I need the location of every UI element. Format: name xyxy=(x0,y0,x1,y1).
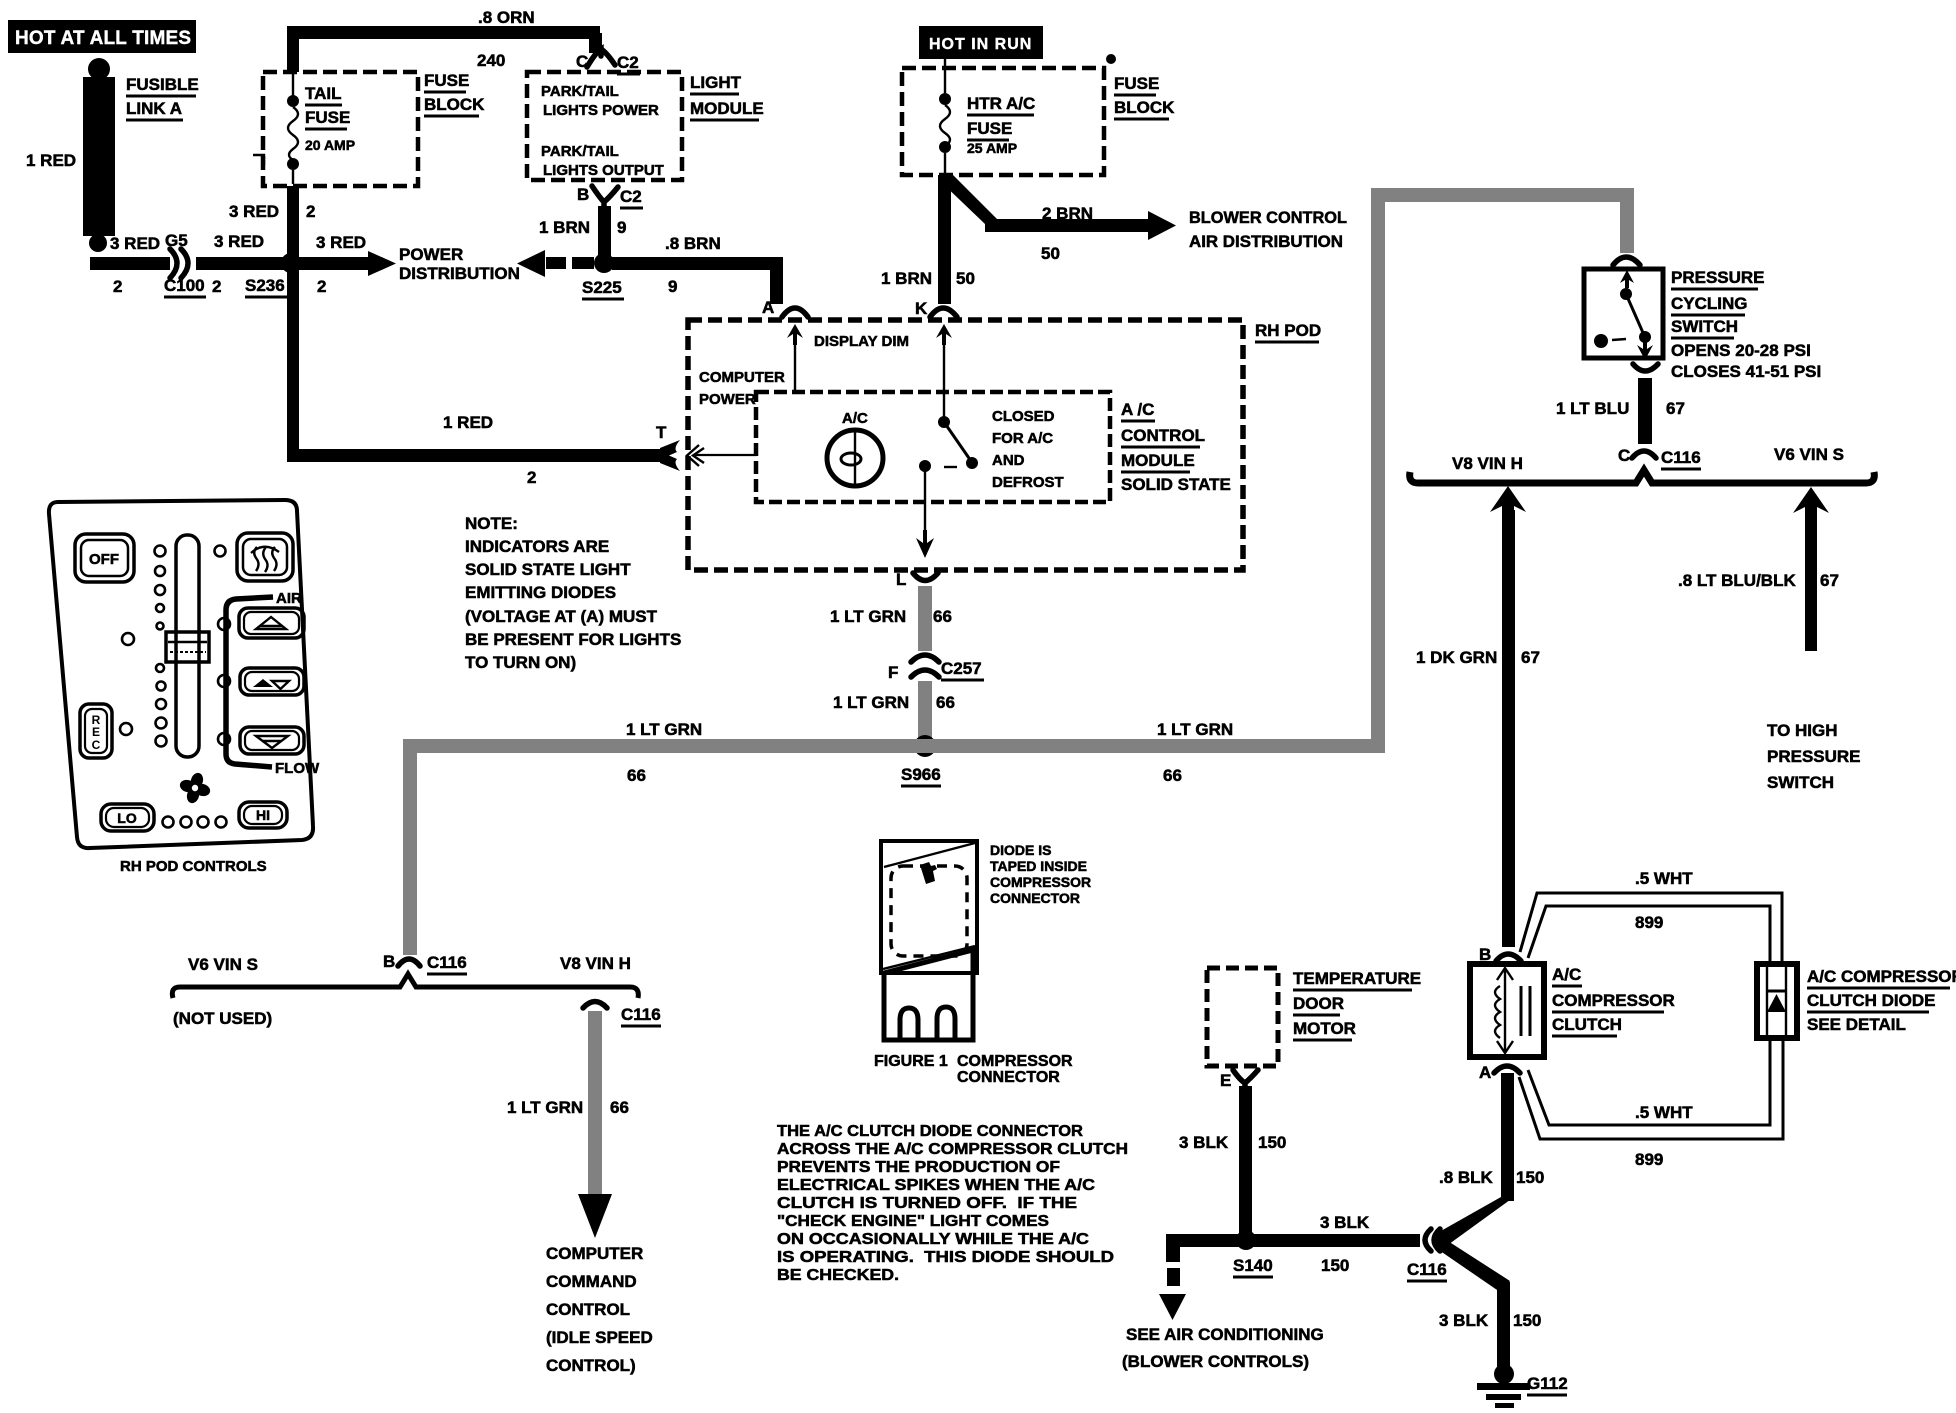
svg-text:POWER: POWER xyxy=(399,245,463,264)
svg-text:1 DK GRN: 1 DK GRN xyxy=(1416,648,1497,667)
terminal E connector xyxy=(1220,1070,1258,1090)
svg-text:(IDLE SPEED: (IDLE SPEED xyxy=(546,1328,653,1347)
svg-text:CLUTCH DIODE: CLUTCH DIODE xyxy=(1807,991,1935,1010)
svg-text:C116: C116 xyxy=(427,953,467,972)
svg-text:3 RED: 3 RED xyxy=(110,234,160,253)
wire 1 RED from S236 to terminal T xyxy=(287,270,680,487)
node COMPUTER COMMAND CONTROL xyxy=(546,1244,653,1375)
connector F C257 xyxy=(888,655,984,682)
svg-text:SOLID STATE LIGHT: SOLID STATE LIGHT xyxy=(465,560,631,579)
svg-text:2: 2 xyxy=(317,277,326,296)
svg-text:HI: HI xyxy=(256,807,270,823)
svg-text:FUSE: FUSE xyxy=(424,71,469,90)
svg-text:1 RED: 1 RED xyxy=(443,413,493,432)
svg-text:1 LT GRN: 1 LT GRN xyxy=(507,1098,583,1117)
label FUSE BLOCK (right) xyxy=(1114,74,1175,119)
svg-text:V6 VIN S: V6 VIN S xyxy=(1774,445,1844,464)
svg-text:DISPLAY DIM: DISPLAY DIM xyxy=(814,333,909,350)
terminal K connector xyxy=(915,299,957,318)
wire 2 BRN to blower control xyxy=(939,175,1176,263)
svg-text:LO: LO xyxy=(117,810,137,826)
svg-text:FUSE: FUSE xyxy=(967,119,1012,138)
svg-text:(NOT USED): (NOT USED) xyxy=(173,1009,272,1028)
svg-text:PRESSURE: PRESSURE xyxy=(1671,268,1765,287)
svg-text:S140: S140 xyxy=(1233,1256,1273,1275)
label FUSE BLOCK xyxy=(424,71,485,116)
svg-text:HTR A/C: HTR A/C xyxy=(967,94,1035,113)
HTR A/C fuse element 25 AMP xyxy=(939,59,1035,173)
svg-text:SOLID STATE: SOLID STATE xyxy=(1121,475,1231,494)
svg-text:20 AMP: 20 AMP xyxy=(305,137,355,153)
node POWER DISTRIBUTION xyxy=(399,245,520,283)
figure 1 compressor connector drawing xyxy=(881,841,977,1040)
wire 1 BRN arrow from S225 to power distribution xyxy=(517,250,594,277)
switch closed for A/C and defrost xyxy=(919,416,978,472)
button air down xyxy=(240,727,304,754)
svg-text:T: T xyxy=(656,423,667,442)
svg-text:3 BLK: 3 BLK xyxy=(1320,1213,1370,1232)
svg-text:BE PRESENT FOR LIGHTS: BE PRESENT FOR LIGHTS xyxy=(465,630,681,649)
wire 1 BRN from fuse to terminal K xyxy=(881,175,975,304)
svg-text:NOTE:: NOTE: xyxy=(465,514,518,533)
svg-text:1 LT GRN: 1 LT GRN xyxy=(833,693,909,712)
svg-text:PARK/TAIL: PARK/TAIL xyxy=(541,143,619,160)
wire .5 WHT upper loop to clutch diode xyxy=(1520,869,1782,964)
A/C compressor clutch diode xyxy=(1757,964,1797,1038)
pressure cycling switch box xyxy=(1584,269,1663,360)
wire .8 BLK from terminal A to C116 xyxy=(1432,1073,1544,1247)
svg-text:C257: C257 xyxy=(941,659,982,678)
node BLOWER CONTROL AIR DISTRIBUTION xyxy=(1189,208,1347,251)
wire stub to see air conditioning xyxy=(1122,1234,1324,1371)
label PRESSURE CYCLING SWITCH xyxy=(1671,268,1821,381)
svg-text:CYCLING: CYCLING xyxy=(1671,294,1748,313)
svg-text:.8 ORN: .8 ORN xyxy=(478,8,535,27)
svg-text:DOOR: DOOR xyxy=(1293,994,1344,1013)
label A/C COMPRESSOR CLUTCH DIODE SEE DETAIL xyxy=(1807,967,1956,1034)
label FUSIBLE LINK A xyxy=(126,75,199,120)
label COMPUTER POWER xyxy=(699,369,785,408)
wire 1 BRN from C2 to S225 xyxy=(539,206,626,258)
svg-text:COMPUTER: COMPUTER xyxy=(699,369,785,386)
svg-text:2: 2 xyxy=(527,468,536,487)
RH POD dashed box xyxy=(688,320,1321,570)
svg-text:C100: C100 xyxy=(164,276,205,295)
svg-text:67: 67 xyxy=(1666,399,1685,418)
svg-text:1 LT GRN: 1 LT GRN xyxy=(626,720,702,739)
svg-text:BE CHECKED.: BE CHECKED. xyxy=(777,1267,899,1284)
connector C100 xyxy=(110,231,206,297)
button HI xyxy=(239,802,287,828)
svg-text:S966: S966 xyxy=(901,765,941,784)
label A/C CONTROL MODULE SOLID STATE xyxy=(1121,400,1231,494)
connector C116 on V8 branch xyxy=(583,1002,661,1027)
button REC xyxy=(80,704,112,758)
terminal L connector xyxy=(896,570,938,589)
svg-text:FLOW: FLOW xyxy=(275,760,320,777)
junction S966 xyxy=(901,735,941,786)
RH POD controls panel outline xyxy=(49,500,313,848)
wire 1 LT GRN C257 to S966 xyxy=(833,681,955,739)
svg-text:1 BRN: 1 BRN xyxy=(539,218,590,237)
V6 VIN S / V8 VIN H option brace (lower) xyxy=(172,954,638,1028)
svg-text:DEFROST: DEFROST xyxy=(992,474,1064,491)
svg-text:COMPUTER: COMPUTER xyxy=(546,1244,643,1263)
svg-text:V8 VIN H: V8 VIN H xyxy=(1452,454,1523,473)
wire 1 LT BLU xyxy=(1556,378,1685,444)
label LIGHT MODULE xyxy=(690,73,764,120)
svg-text:FIGURE 1: FIGURE 1 xyxy=(874,1053,948,1070)
wire 1 LT GRN bus left and right of S966 xyxy=(404,720,1377,785)
svg-text:SWITCH: SWITCH xyxy=(1767,773,1834,792)
svg-text:1 LT GRN: 1 LT GRN xyxy=(830,607,906,626)
label CLOSED FOR A/C AND DEFROST xyxy=(992,408,1064,491)
svg-text:TO TURN ON): TO TURN ON) xyxy=(465,653,576,672)
svg-text:66: 66 xyxy=(627,766,646,785)
ground G112 xyxy=(1477,1364,1568,1408)
fan icon xyxy=(176,769,214,807)
svg-text:L: L xyxy=(896,570,906,589)
svg-text:AND: AND xyxy=(992,452,1025,469)
svg-text:INDICATORS ARE: INDICATORS ARE xyxy=(465,537,609,556)
svg-text:LIGHT: LIGHT xyxy=(690,73,742,92)
svg-text:.8 BLK: .8 BLK xyxy=(1439,1168,1494,1187)
button LO xyxy=(101,804,154,831)
svg-text:B: B xyxy=(383,952,395,971)
svg-text:2: 2 xyxy=(113,277,122,296)
wire display dim (terminal A to module) xyxy=(787,324,909,392)
svg-text:1 RED: 1 RED xyxy=(26,151,76,170)
svg-text:FOR A/C: FOR A/C xyxy=(992,430,1053,447)
svg-text:TAIL: TAIL xyxy=(305,84,342,103)
temperature door motor dashed box xyxy=(1207,968,1421,1066)
junction S225 xyxy=(582,253,624,299)
svg-text:G5: G5 xyxy=(165,231,188,250)
svg-text:CONTROL: CONTROL xyxy=(546,1300,630,1319)
wire switch to terminal L xyxy=(916,470,934,558)
svg-text:LINK A: LINK A xyxy=(126,99,182,118)
terminal A connector of compressor clutch xyxy=(1479,1063,1520,1082)
svg-text:OFF: OFF xyxy=(89,551,119,568)
svg-text:AIR: AIR xyxy=(276,590,302,607)
svg-text:899: 899 xyxy=(1635,1150,1663,1169)
svg-text:POWER: POWER xyxy=(699,391,756,408)
button OFF xyxy=(75,534,134,582)
svg-text:66: 66 xyxy=(610,1098,629,1117)
V8 VIN H / V6 VIN S option brace (upper) xyxy=(1410,445,1875,483)
svg-text:2 BRN: 2 BRN xyxy=(1042,204,1093,223)
svg-text:(BLOWER CONTROLS): (BLOWER CONTROLS) xyxy=(1122,1352,1309,1371)
button defrost xyxy=(237,533,293,581)
svg-text:V6 VIN S: V6 VIN S xyxy=(188,955,258,974)
svg-text:LIGHTS OUTPUT: LIGHTS OUTPUT xyxy=(543,162,664,179)
wire 3 BLK from temp door motor to S140 xyxy=(1179,1086,1286,1234)
svg-text:9: 9 xyxy=(668,277,677,296)
svg-text:PARK/TAIL: PARK/TAIL xyxy=(541,83,619,100)
connector at pressure cycling switch top xyxy=(1613,257,1640,265)
svg-text:A/C: A/C xyxy=(1552,965,1581,984)
svg-text:CONTROL): CONTROL) xyxy=(546,1356,636,1375)
wire terminal K into switch xyxy=(936,324,952,418)
svg-text:150: 150 xyxy=(1516,1168,1544,1187)
svg-text:240: 240 xyxy=(477,51,505,70)
power source label HOT IN RUN xyxy=(919,26,1043,59)
svg-text:MODULE: MODULE xyxy=(690,99,764,118)
wire 1 DK GRN (V8) arrow up xyxy=(1416,486,1540,947)
svg-text:BLOCK: BLOCK xyxy=(424,95,485,114)
label DIODE IS TAPED INSIDE COMPRESSOR CONNECTOR xyxy=(990,842,1091,906)
label FIGURE 1 COMPRESSOR CONNECTOR xyxy=(874,1053,1073,1086)
connector C116 (three-way) xyxy=(1407,1229,1447,1281)
svg-text:BLOWER CONTROL: BLOWER CONTROL xyxy=(1189,208,1347,227)
svg-text:K: K xyxy=(915,299,928,318)
svg-text:3 RED: 3 RED xyxy=(214,232,264,251)
fuse block (tail fuse) dashed box xyxy=(253,72,418,186)
note text block xyxy=(465,514,681,672)
svg-text:TAPED INSIDE: TAPED INSIDE xyxy=(990,858,1087,874)
svg-text:RH POD CONTROLS: RH POD CONTROLS xyxy=(120,858,267,875)
svg-text:CONNECTOR: CONNECTOR xyxy=(957,1069,1060,1086)
svg-text:S225: S225 xyxy=(582,278,622,297)
svg-text:TEMPERATURE: TEMPERATURE xyxy=(1293,969,1421,988)
svg-text:A/C: A/C xyxy=(842,410,868,427)
svg-text:9: 9 xyxy=(617,218,626,237)
svg-text:3 RED: 3 RED xyxy=(229,202,279,221)
svg-text:50: 50 xyxy=(956,269,975,288)
button air up-down xyxy=(240,668,304,695)
svg-text:CONNECTOR: CONNECTOR xyxy=(990,890,1080,906)
svg-text:COMPRESSOR: COMPRESSOR xyxy=(957,1053,1073,1070)
wire computer power arrow to T xyxy=(687,445,756,466)
svg-text:C116: C116 xyxy=(1407,1260,1447,1279)
svg-text:CLOSED: CLOSED xyxy=(992,408,1055,425)
svg-text:E: E xyxy=(92,725,100,739)
wire .8 BRN from S225 to terminal A xyxy=(612,234,783,304)
svg-text:A/C COMPRESSOR: A/C COMPRESSOR xyxy=(1807,967,1956,986)
fusible link A xyxy=(83,58,115,252)
svg-text:(VOLTAGE AT (A) MUST: (VOLTAGE AT (A) MUST xyxy=(465,607,658,626)
svg-text:ON OCCASIONALLY WHILE THE A/C: ON OCCASIONALLY WHILE THE A/C xyxy=(777,1231,1089,1248)
svg-text:FUSIBLE: FUSIBLE xyxy=(126,75,199,94)
svg-text:C2: C2 xyxy=(620,187,642,206)
svg-text:66: 66 xyxy=(936,693,955,712)
wire 1 LT GRN terminal L to C257 xyxy=(830,586,952,651)
junction S236 xyxy=(245,253,301,297)
svg-text:C: C xyxy=(92,738,101,752)
terminal B connector of compressor clutch xyxy=(1479,945,1521,964)
svg-text:.5 WHT: .5 WHT xyxy=(1635,869,1693,888)
svg-text:3 BLK: 3 BLK xyxy=(1179,1133,1229,1152)
A/C control module inner dashed box xyxy=(756,392,1110,502)
blower speed indicator dots xyxy=(163,817,227,828)
svg-text:THE A/C CLUTCH DIODE CONNECTOR: THE A/C CLUTCH DIODE CONNECTOR xyxy=(777,1123,1083,1140)
svg-text:CONTROL: CONTROL xyxy=(1121,426,1205,445)
wire 1 LT GRN from S966 bus up to pressure cycling switch xyxy=(1371,188,1634,753)
wire 1 LT GRN to computer command control xyxy=(507,1011,629,1238)
connector at pressure cycling switch bottom xyxy=(1633,364,1658,371)
svg-text:COMPRESSOR: COMPRESSOR xyxy=(990,874,1091,890)
fuse block (HTR A/C) dashed box xyxy=(902,54,1116,175)
svg-text:TO HIGH: TO HIGH xyxy=(1767,721,1838,740)
wire .5 WHT lower loop to clutch diode xyxy=(1519,1038,1783,1169)
svg-text:C2: C2 xyxy=(617,53,639,72)
connector C2 top xyxy=(576,49,640,74)
svg-text:67: 67 xyxy=(1820,571,1839,590)
svg-text:IS OPERATING. THIS DIODE SHOU: IS OPERATING. THIS DIODE SHOULD xyxy=(777,1249,1114,1266)
button air up xyxy=(239,608,304,638)
svg-text:RH POD: RH POD xyxy=(1255,321,1321,340)
svg-text:FUSE: FUSE xyxy=(1114,74,1159,93)
power source label HOT AT ALL TIMES xyxy=(8,20,196,53)
wire 3 BLK from C116 to G112 xyxy=(1433,1234,1541,1372)
A/C indicator lamp xyxy=(827,410,883,486)
svg-text:E: E xyxy=(1220,1071,1231,1090)
wire 3 BLK from S140 to C116 xyxy=(1166,1213,1420,1275)
svg-text:G112: G112 xyxy=(1527,1374,1568,1393)
svg-text:OPENS 20-28 PSI: OPENS 20-28 PSI xyxy=(1671,341,1811,360)
svg-text:A: A xyxy=(1479,1063,1491,1082)
svg-text:C116: C116 xyxy=(621,1005,661,1024)
svg-text:A /C: A /C xyxy=(1121,400,1154,419)
connector B C2 below light module xyxy=(577,185,643,208)
wire 1 LT GRN left branch down to B C116 xyxy=(403,739,417,955)
svg-text:DISTRIBUTION: DISTRIBUTION xyxy=(399,264,520,283)
wire 3 RED from C100 through S236 to power distribution arrow xyxy=(196,232,396,296)
svg-text:CLOSES 41-51 PSI: CLOSES 41-51 PSI xyxy=(1671,362,1821,381)
svg-text:V8 VIN H: V8 VIN H xyxy=(560,954,631,973)
slider scale dots xyxy=(120,546,230,747)
svg-text:3 BLK: 3 BLK xyxy=(1439,1311,1489,1330)
note paragraph about A/C clutch diode xyxy=(777,1123,1128,1284)
svg-text:SEE AIR CONDITIONING: SEE AIR CONDITIONING xyxy=(1126,1325,1324,1344)
wire .8 ORN from fuse block top to C2 xyxy=(287,8,602,72)
blower speed slider xyxy=(166,535,209,757)
svg-text:25 AMP: 25 AMP xyxy=(967,140,1017,156)
AIR FLOW bracket xyxy=(226,590,320,777)
svg-text:COMMAND: COMMAND xyxy=(546,1272,637,1291)
svg-text:3 RED: 3 RED xyxy=(316,233,366,252)
svg-text:EMITTING DIODES: EMITTING DIODES xyxy=(465,583,616,602)
node TO HIGH PRESSURE SWITCH xyxy=(1767,721,1861,792)
svg-text:66: 66 xyxy=(1163,766,1182,785)
svg-text:PREVENTS THE PRODUCTION OF: PREVENTS THE PRODUCTION OF xyxy=(777,1159,1060,1176)
svg-text:899: 899 xyxy=(1635,913,1663,932)
svg-text:MOTOR: MOTOR xyxy=(1293,1019,1356,1038)
wire 3 RED fuse to S236 xyxy=(229,186,315,257)
svg-text:"CHECK ENGINE" LIGHT COMES: "CHECK ENGINE" LIGHT COMES xyxy=(777,1213,1049,1230)
tail fuse element 20 AMP xyxy=(287,74,355,184)
A/C compressor clutch box xyxy=(1470,964,1544,1057)
svg-text:.5 WHT: .5 WHT xyxy=(1635,1103,1693,1122)
svg-text:.8 BRN: .8 BRN xyxy=(665,234,721,253)
svg-text:2: 2 xyxy=(306,202,315,221)
svg-text:FUSE: FUSE xyxy=(305,108,350,127)
svg-text:ELECTRICAL SPIKES WHEN THE A/C: ELECTRICAL SPIKES WHEN THE A/C xyxy=(777,1177,1095,1194)
svg-text:COMPRESSOR: COMPRESSOR xyxy=(1552,991,1675,1010)
svg-text:HOT IN RUN: HOT IN RUN xyxy=(929,36,1032,53)
svg-text:AIR DISTRIBUTION: AIR DISTRIBUTION xyxy=(1189,232,1343,251)
svg-text:C: C xyxy=(576,52,588,71)
svg-text:HOT AT ALL TIMES: HOT AT ALL TIMES xyxy=(15,28,191,49)
svg-text:150: 150 xyxy=(1321,1256,1349,1275)
svg-text:1 LT BLU: 1 LT BLU xyxy=(1556,399,1629,418)
svg-text:CLUTCH IS TURNED OFF. IF THE: CLUTCH IS TURNED OFF. IF THE xyxy=(777,1195,1077,1212)
svg-text:150: 150 xyxy=(1513,1311,1541,1330)
wire .8 LT BLU/BLK (V6) arrow up xyxy=(1678,487,1839,651)
svg-text:ACROSS THE A/C COMPRESSOR CLUT: ACROSS THE A/C COMPRESSOR CLUTCH xyxy=(777,1141,1128,1158)
terminal A connector xyxy=(762,298,808,317)
svg-text:.8 LT BLU/BLK: .8 LT BLU/BLK xyxy=(1678,571,1796,590)
svg-text:BLOCK: BLOCK xyxy=(1114,98,1175,117)
svg-text:1 LT GRN: 1 LT GRN xyxy=(1157,720,1233,739)
svg-text:SWITCH: SWITCH xyxy=(1671,317,1738,336)
junction S140 xyxy=(1233,1230,1273,1277)
svg-text:1 BRN: 1 BRN xyxy=(881,269,932,288)
svg-text:C116: C116 xyxy=(1661,448,1701,467)
label A/C COMPRESSOR CLUTCH xyxy=(1552,965,1675,1036)
light module dashed box xyxy=(527,72,682,180)
svg-text:S236: S236 xyxy=(245,276,285,295)
svg-text:B: B xyxy=(577,185,589,204)
svg-text:CLUTCH: CLUTCH xyxy=(1552,1015,1622,1034)
svg-text:PRESSURE: PRESSURE xyxy=(1767,747,1861,766)
svg-text:MODULE: MODULE xyxy=(1121,451,1195,470)
connector C C116 xyxy=(1618,446,1701,469)
connector B C116 xyxy=(383,952,467,974)
wire 3 RED from fusible link to C100 xyxy=(90,257,170,270)
svg-text:50: 50 xyxy=(1041,244,1060,263)
svg-text:DIODE IS: DIODE IS xyxy=(990,842,1051,858)
svg-text:SEE DETAIL: SEE DETAIL xyxy=(1807,1015,1906,1034)
svg-text:C: C xyxy=(1618,446,1630,465)
svg-text:66: 66 xyxy=(933,607,952,626)
svg-text:67: 67 xyxy=(1521,648,1540,667)
svg-text:150: 150 xyxy=(1258,1133,1286,1152)
svg-text:F: F xyxy=(888,663,898,682)
svg-text:LIGHTS POWER: LIGHTS POWER xyxy=(543,102,659,119)
svg-text:A: A xyxy=(762,298,774,317)
svg-text:2: 2 xyxy=(212,277,221,296)
